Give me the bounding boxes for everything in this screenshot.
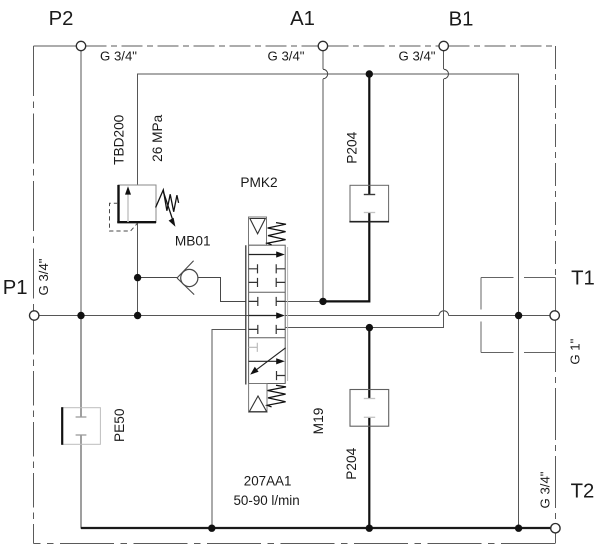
wire A1 drop with hop over tank line xyxy=(322,51,324,70)
wire M19 plug net (thick) xyxy=(368,328,370,529)
PMK2 top spring xyxy=(267,223,286,245)
wire check-valve outlet to valve A-side pilot port xyxy=(198,278,245,302)
PMK2 section-3 faint closed port xyxy=(249,343,258,352)
svg-text:P204: P204 xyxy=(344,131,359,163)
plug M19 cavity xyxy=(350,390,389,427)
wire P1 supply line (right of valve) with hop over B1 drop xyxy=(285,315,439,317)
svg-text:M19: M19 xyxy=(311,408,326,435)
junction node TBD200/P1 xyxy=(134,312,141,319)
junction node B1/M19 xyxy=(366,324,373,331)
port T1 xyxy=(550,311,559,320)
wire valve B-port left branch down to tank rail xyxy=(212,329,246,528)
svg-text:26 MPa: 26 MPa xyxy=(150,114,165,162)
plug P204 (upper cavity) xyxy=(349,185,389,222)
port A1 xyxy=(318,41,327,50)
svg-text:P2: P2 xyxy=(49,8,74,30)
svg-text:MB01: MB01 xyxy=(175,234,211,249)
T1 cavity box xyxy=(481,278,555,353)
svg-text:G 3/4": G 3/4" xyxy=(538,471,553,508)
svg-text:50-90 l/min: 50-90 l/min xyxy=(233,493,299,508)
wire valve A-port to A1 node xyxy=(285,300,323,302)
wire check-valve branch xyxy=(138,277,177,279)
svg-text:A1: A1 xyxy=(290,8,315,30)
wire P2 drop xyxy=(80,51,82,316)
junction node TBD200/check-valve branch xyxy=(134,274,141,281)
PMK2 bottom hydraulic pilot xyxy=(249,384,267,413)
port T2 xyxy=(551,524,560,533)
junction node P2/P1 xyxy=(77,312,84,319)
PMK2 section-3 closed port right xyxy=(277,371,286,380)
svg-text:G 3/4": G 3/4" xyxy=(268,49,305,64)
svg-text:G 3/4": G 3/4" xyxy=(36,258,51,295)
junction node A1/P204 xyxy=(319,298,326,305)
svg-text:207AA1: 207AA1 xyxy=(244,474,292,489)
svg-text:P1: P1 xyxy=(3,277,28,299)
wire TBD200 riser to tank line and T1 riser xyxy=(138,74,519,529)
port P2 xyxy=(76,41,85,50)
svg-text:G 3/4": G 3/4" xyxy=(100,49,137,64)
PMK2 section-1 closed ports row 2 xyxy=(249,278,286,287)
svg-text:PE50: PE50 xyxy=(112,408,127,442)
PMK2 section-3 proportional diagonal arrow xyxy=(250,348,285,375)
svg-text:PMK2: PMK2 xyxy=(240,175,277,190)
PMK2 section-2 closed ports row (B) xyxy=(249,325,286,334)
svg-text:G 1": G 1" xyxy=(567,338,582,364)
svg-text:B1: B1 xyxy=(449,9,474,31)
PMK2 section-3 flow arrow xyxy=(249,358,285,364)
svg-text:P204: P204 xyxy=(344,447,359,479)
wire TBD200 lower lead xyxy=(137,223,139,316)
PMK2 bottom spring xyxy=(267,385,286,407)
junction node P204/tank line xyxy=(366,70,373,77)
svg-text:TBD200: TBD200 xyxy=(111,114,126,165)
wire B1 drop with hop over tank line xyxy=(443,51,445,70)
manifold boundary (dash-dot envelope) xyxy=(34,46,556,544)
svg-text:G 3/4": G 3/4" xyxy=(399,49,436,64)
port B1 xyxy=(439,41,448,50)
PMK2 section-2 P through arrow xyxy=(249,312,285,318)
PMK2 top hydraulic pilot xyxy=(249,217,267,245)
svg-text:T1: T1 xyxy=(571,268,595,290)
junction node bottom rail left xyxy=(208,525,215,532)
directional valve PMK2 : body xyxy=(246,245,288,384)
wire P204 plug net (thick) xyxy=(323,74,369,301)
check valve MB01 xyxy=(177,261,198,295)
wire PE50 leads xyxy=(80,316,82,529)
junction node T1 xyxy=(515,312,522,319)
wire P1 supply line (left of valve) xyxy=(39,315,249,317)
relief valve TBD200 xyxy=(110,185,179,231)
PMK2 section-1 flow arrow xyxy=(249,251,285,257)
PMK2 section-1 closed ports row 1 xyxy=(249,264,286,273)
junction node bottom rail middle xyxy=(366,525,373,532)
plug PE50 cavity xyxy=(62,407,100,445)
junction node bottom rail right xyxy=(515,525,522,532)
PMK2 section-2 closed A/B ports xyxy=(249,297,286,306)
svg-text:T2: T2 xyxy=(571,480,595,502)
wire tank bottom rail xyxy=(81,527,551,529)
port P1 xyxy=(30,311,39,320)
